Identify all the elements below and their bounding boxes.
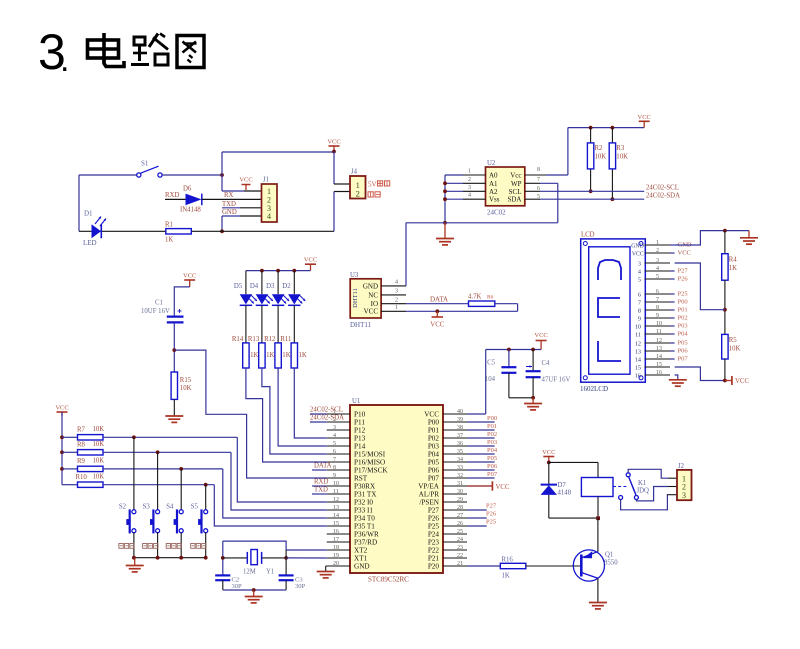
capacitor C5 104 — [485, 350, 517, 398]
svg-text:Vcc: Vcc — [510, 172, 521, 180]
wire DHT11 gnd up — [405, 223, 407, 286]
svg-text:GND: GND — [363, 282, 378, 290]
svg-text:47UF 16V: 47UF 16V — [542, 377, 571, 384]
svg-text:XT1: XT1 — [354, 555, 368, 563]
power VCC at VP/EA — [467, 481, 510, 491]
svg-text:C4: C4 — [542, 360, 551, 367]
svg-text:VCC: VCC — [430, 322, 444, 329]
svg-text:R12: R12 — [264, 336, 276, 343]
connector J2 — [677, 463, 692, 500]
svg-text:5: 5 — [333, 441, 336, 447]
svg-text:10UF 16V: 10UF 16V — [141, 308, 170, 315]
wire R16 to base — [526, 565, 582, 567]
wire DATA — [406, 303, 469, 305]
svg-text:VCC: VCC — [364, 308, 379, 316]
svg-text:4148: 4148 — [558, 490, 572, 497]
svg-text:P27: P27 — [486, 503, 497, 510]
svg-text:1K: 1K — [266, 352, 274, 359]
svg-text:DHT11: DHT11 — [352, 288, 359, 308]
svg-text:9: 9 — [638, 316, 641, 323]
svg-text:DHT11: DHT11 — [350, 321, 372, 329]
svg-text:R7: R7 — [77, 427, 86, 434]
svg-text:3: 3 — [656, 258, 659, 264]
button S2 — [119, 437, 136, 557]
svg-text:33: 33 — [457, 465, 463, 471]
wire SCL net — [525, 185, 679, 192]
svg-text:R4: R4 — [729, 257, 738, 264]
svg-text:SCL: SCL — [509, 188, 522, 196]
svg-text:DATA: DATA — [430, 295, 448, 303]
svg-text:P01: P01 — [678, 307, 688, 314]
svg-text:3: 3 — [682, 491, 686, 500]
diode D7 4148 — [541, 462, 572, 518]
resistor R9 10K — [62, 458, 104, 472]
svg-text:8: 8 — [656, 305, 659, 311]
wire P0 bus labels — [467, 415, 498, 478]
svg-text:R13: R13 — [248, 336, 260, 343]
wire vertical to J1 pin1 — [221, 152, 223, 191]
net GND stub J1 pin4 — [222, 209, 262, 216]
wire crystal gnd rail — [223, 588, 286, 592]
svg-text:D7: D7 — [558, 482, 567, 489]
svg-text:U1: U1 — [352, 398, 360, 405]
svg-text:32: 32 — [457, 473, 463, 479]
svg-text:P17/MSCK: P17/MSCK — [354, 467, 388, 475]
connector J4 power input — [350, 169, 366, 199]
svg-text:J4: J4 — [351, 169, 358, 176]
svg-text:P04: P04 — [678, 331, 689, 338]
wire lcd pin3 contrast — [675, 263, 725, 310]
svg-text:Q1: Q1 — [605, 552, 613, 559]
svg-text:4: 4 — [395, 280, 398, 286]
svg-text:P07: P07 — [428, 475, 440, 483]
led D4 — [250, 271, 273, 306]
svg-text:7: 7 — [537, 177, 540, 183]
svg-text:J2: J2 — [678, 463, 685, 470]
svg-text:3: 3 — [638, 261, 641, 268]
svg-text:P26: P26 — [428, 515, 440, 523]
svg-text:RXD: RXD — [314, 479, 328, 486]
svg-text:8: 8 — [333, 465, 336, 471]
svg-text:6: 6 — [638, 292, 641, 299]
svg-text:P27: P27 — [428, 507, 440, 515]
led D5 — [234, 271, 257, 306]
svg-text:/PSEN: /PSEN — [419, 499, 439, 507]
svg-text:P20: P20 — [428, 563, 440, 571]
svg-text:37: 37 — [457, 433, 463, 439]
svg-text:21: 21 — [457, 561, 463, 567]
svg-text:P14: P14 — [354, 443, 366, 451]
svg-text:J1: J1 — [263, 177, 269, 184]
svg-text:D5: D5 — [234, 283, 243, 290]
resistor R11 1K — [280, 305, 307, 368]
svg-text:4: 4 — [267, 212, 271, 221]
wire row R7 — [103, 435, 327, 502]
led D1 — [83, 210, 106, 248]
svg-text:R5: R5 — [729, 337, 738, 344]
node R4 top — [723, 229, 727, 233]
svg-text:P07: P07 — [678, 356, 689, 363]
title glyph dian — [88, 33, 125, 67]
resistor R8 10K — [62, 441, 104, 455]
svg-text:7: 7 — [656, 297, 659, 303]
svg-text:30P: 30P — [232, 583, 243, 590]
svg-text:NC: NC — [368, 291, 378, 299]
svg-text:15: 15 — [656, 362, 662, 368]
ground symbol lcd top — [740, 231, 758, 245]
svg-text:104: 104 — [485, 376, 496, 383]
svg-text:S3: S3 — [143, 504, 151, 511]
ground symbol R15 — [165, 399, 183, 422]
net 24C02-SCL at P10 — [310, 407, 343, 415]
lcd module 1602 — [580, 232, 645, 394]
svg-text:VCC: VCC — [55, 405, 68, 412]
connector J1 — [262, 177, 278, 223]
svg-text:10: 10 — [333, 481, 339, 487]
svg-text:12M: 12M — [243, 569, 256, 576]
node U2 gnd junctions — [443, 181, 447, 224]
svg-text:4: 4 — [638, 269, 641, 276]
svg-text:11: 11 — [656, 329, 662, 335]
wire MCU VCC pin riser — [443, 350, 486, 415]
svg-text:2: 2 — [656, 248, 659, 254]
svg-text:VCC: VCC — [304, 257, 317, 264]
svg-text:VCC: VCC — [542, 449, 555, 456]
capacitor C3 30P — [279, 575, 306, 590]
svg-text:14: 14 — [635, 357, 641, 364]
wire crystal right vertical — [285, 550, 287, 575]
svg-text:A2: A2 — [489, 188, 498, 196]
svg-text:P36/WR: P36/WR — [354, 531, 379, 539]
svg-text:6: 6 — [333, 449, 336, 455]
svg-text:P22: P22 — [428, 547, 440, 555]
svg-text:P13: P13 — [354, 435, 366, 443]
resistor R5 10K — [722, 334, 741, 380]
svg-text:39: 39 — [457, 417, 463, 423]
wire lcd pin16 gnd — [675, 375, 678, 380]
net DATA label — [430, 295, 448, 303]
svg-text:P26: P26 — [678, 276, 689, 283]
svg-text:P04: P04 — [428, 451, 440, 459]
svg-text:Y1: Y1 — [266, 569, 274, 576]
wire J4 pin2 — [334, 192, 350, 232]
svg-text:P06: P06 — [678, 348, 689, 355]
svg-text:12: 12 — [333, 497, 339, 503]
wire crystal top link — [223, 541, 327, 550]
relay K1 coil — [581, 462, 649, 520]
resistor R16 1K — [500, 557, 526, 580]
ground symbol crystal — [245, 590, 263, 603]
power VCC down DHT11 — [430, 311, 444, 328]
svg-text:DATA: DATA — [314, 463, 332, 470]
svg-text:14: 14 — [656, 354, 662, 360]
svg-text:P11: P11 — [354, 419, 365, 427]
svg-text:23: 23 — [457, 545, 463, 551]
svg-text:P06: P06 — [428, 467, 440, 475]
net P27 P26 P25 stubs — [467, 503, 497, 527]
node bottom junction — [220, 229, 224, 233]
svg-text:P16/MISO: P16/MISO — [354, 459, 385, 467]
wire row R8 — [103, 450, 327, 510]
svg-text:22: 22 — [457, 553, 463, 559]
wire button gnd rail — [132, 556, 208, 560]
wire DHT11 VCC — [406, 309, 518, 313]
wire S1 to junction — [162, 174, 222, 176]
svg-text:LCD: LCD — [581, 232, 595, 239]
svg-text:1K: 1K — [250, 352, 258, 359]
svg-text:R15: R15 — [180, 377, 192, 384]
svg-text:P15/MOSI: P15/MOSI — [354, 451, 386, 459]
svg-text:D4: D4 — [250, 283, 259, 290]
svg-text:P01: P01 — [487, 423, 497, 430]
svg-text:24C02-SDA: 24C02-SDA — [310, 415, 344, 422]
svg-text:26: 26 — [457, 521, 463, 527]
button S5 — [191, 485, 208, 558]
svg-text:D2: D2 — [282, 283, 291, 290]
svg-text:P37/RD: P37/RD — [354, 539, 377, 547]
wire bottom rail — [79, 230, 334, 232]
svg-text:P10: P10 — [354, 411, 366, 419]
wire VCC rail top — [568, 127, 644, 129]
power VCC top — [327, 139, 340, 154]
svg-text:3: 3 — [333, 425, 336, 431]
svg-text:27: 27 — [457, 513, 463, 519]
ic U2 24C02 — [486, 160, 525, 217]
wire relay NC to J2 pin3 — [621, 495, 677, 510]
power VCC relay — [542, 449, 555, 464]
svg-text:A1: A1 — [489, 180, 498, 188]
wire D7 bottom link — [549, 517, 598, 519]
wire top rail to VCC — [222, 151, 334, 153]
svg-text:VCC: VCC — [638, 114, 651, 121]
label button functions — [119, 544, 206, 549]
svg-text:29: 29 — [457, 497, 463, 503]
svg-text:K1: K1 — [638, 480, 646, 487]
svg-text:18: 18 — [333, 545, 339, 551]
resistor R3 — [609, 128, 628, 202]
button S3 — [143, 452, 160, 557]
svg-text:24C02: 24C02 — [487, 209, 506, 217]
svg-text:3: 3 — [395, 289, 398, 295]
svg-text:SDA: SDA — [507, 196, 521, 204]
svg-text:R6: R6 — [487, 295, 494, 301]
svg-text:10: 10 — [635, 324, 641, 331]
svg-text:P27: P27 — [678, 268, 689, 275]
net RXD at P30 — [312, 479, 328, 487]
ic U1 STC89C52RC — [350, 398, 443, 584]
svg-text:4: 4 — [656, 266, 659, 272]
svg-text:30P: 30P — [295, 583, 306, 590]
svg-text:1: 1 — [468, 169, 471, 175]
svg-text:VP/EA: VP/EA — [418, 483, 440, 491]
svg-text:P00: P00 — [428, 419, 440, 427]
wire lcd pin stubs — [645, 240, 671, 376]
power VCC lcd — [725, 376, 750, 385]
title text 3. — [38, 24, 69, 80]
svg-text:RXD: RXD — [165, 192, 179, 199]
svg-text:12: 12 — [656, 338, 662, 344]
svg-text:5: 5 — [656, 274, 659, 280]
wire diode to J1 pin2 — [202, 192, 262, 199]
svg-text:4: 4 — [333, 433, 336, 439]
svg-text:24C02-SCL: 24C02-SCL — [310, 407, 343, 414]
svg-text:7: 7 — [333, 457, 336, 463]
power VCC led rail — [304, 257, 317, 271]
svg-text:10: 10 — [656, 321, 662, 327]
resistor R7 10K — [62, 426, 104, 440]
svg-text:9: 9 — [333, 473, 336, 479]
wire XT1 — [286, 557, 327, 559]
resistor R15 10K — [171, 372, 192, 399]
svg-text:13: 13 — [635, 349, 641, 356]
svg-text:TXD: TXD — [222, 201, 236, 208]
net labels lcd pins — [670, 242, 692, 363]
wire R6 to VCC line — [495, 304, 518, 312]
svg-text:19: 19 — [333, 553, 339, 559]
svg-text:P03: P03 — [428, 443, 440, 451]
wire row R10 — [103, 483, 327, 526]
svg-text:16: 16 — [635, 373, 641, 380]
svg-text:VCC: VCC — [183, 273, 196, 280]
wire gnd horizontal — [406, 222, 558, 224]
svg-text:9: 9 — [656, 313, 659, 319]
resistor R10 10K — [62, 474, 104, 488]
svg-text:VCC: VCC — [327, 139, 340, 146]
svg-text:R3: R3 — [616, 145, 625, 152]
resistor R1 — [165, 222, 191, 244]
svg-text:P23: P23 — [428, 539, 440, 547]
wire led R14 to P16 — [246, 368, 327, 462]
net TXD at P31 — [312, 487, 328, 495]
wire relay common to J2 pin2 — [636, 487, 677, 501]
svg-text:1K: 1K — [729, 265, 737, 272]
capacitor C4 47UF — [526, 350, 571, 398]
svg-text:11: 11 — [635, 332, 641, 339]
node rail R2 R3 — [589, 126, 615, 130]
svg-text:12: 12 — [635, 341, 641, 348]
resistor R6 4.7K — [468, 294, 495, 307]
svg-text:24: 24 — [457, 537, 463, 543]
wire led R13 to P15 — [262, 368, 327, 454]
svg-text:4: 4 — [468, 193, 471, 199]
svg-text:4.7K: 4.7K — [468, 294, 481, 301]
svg-text:P24: P24 — [428, 531, 440, 539]
svg-text:P00: P00 — [487, 415, 497, 422]
wire DHT11 pins — [381, 280, 406, 312]
svg-text:P26: P26 — [486, 511, 497, 518]
svg-text:GND: GND — [354, 563, 370, 571]
svg-text:P06: P06 — [487, 463, 498, 470]
svg-text:2: 2 — [356, 189, 360, 199]
svg-text:VCC: VCC — [496, 484, 510, 491]
label 5V power — [368, 181, 390, 189]
svg-text:31: 31 — [457, 481, 463, 487]
resistor R13 1K — [248, 305, 275, 368]
svg-text:P05: P05 — [487, 455, 497, 462]
wire GND down to bottom — [221, 216, 223, 231]
wire lcd pin1 gnd — [675, 231, 749, 245]
svg-text:11: 11 — [333, 489, 339, 495]
svg-text:P02: P02 — [678, 315, 688, 322]
svg-text:D3: D3 — [266, 283, 275, 290]
node junction S1/VCC — [220, 173, 224, 177]
wire J1 pin1 — [222, 190, 262, 192]
svg-text:S1: S1 — [141, 160, 149, 168]
svg-text:D6: D6 — [183, 186, 192, 193]
svg-text:2: 2 — [468, 177, 471, 183]
svg-text:Vss: Vss — [489, 196, 500, 204]
svg-text:2: 2 — [395, 297, 398, 303]
svg-text:P04: P04 — [487, 447, 498, 454]
svg-text:P02: P02 — [487, 431, 497, 438]
svg-text:17: 17 — [333, 537, 339, 543]
ground symbol buttons — [126, 558, 144, 572]
svg-text:34: 34 — [457, 457, 463, 463]
svg-text:7: 7 — [638, 300, 641, 307]
svg-text:S4: S4 — [166, 504, 174, 511]
wire C1 to R15 — [172, 322, 176, 372]
svg-text:P31 TX: P31 TX — [354, 491, 377, 499]
svg-text:RST: RST — [354, 475, 368, 483]
net DATA at P17 — [312, 463, 332, 471]
wire RXD to diode — [165, 198, 186, 200]
svg-text:24C02-SCL: 24C02-SCL — [646, 185, 679, 192]
svg-text:P35 T1: P35 T1 — [354, 523, 375, 531]
svg-text:P30RX: P30RX — [354, 483, 376, 491]
svg-text:S2: S2 — [119, 504, 127, 511]
wire S1 left — [79, 174, 137, 176]
svg-text:13: 13 — [333, 505, 339, 511]
svg-text:LED: LED — [83, 239, 97, 247]
svg-text:24C02-SDA: 24C02-SDA — [646, 193, 680, 200]
svg-text:.: . — [60, 41, 69, 79]
svg-text:10K: 10K — [616, 154, 628, 161]
svg-text:GND: GND — [631, 243, 644, 249]
svg-text:JDQ: JDQ — [637, 487, 650, 494]
svg-text:U2: U2 — [487, 160, 496, 167]
svg-text:STC89C52RC: STC89C52RC — [368, 576, 409, 584]
svg-text:VCC: VCC — [239, 177, 252, 184]
wire led R11 to P13 — [294, 368, 326, 438]
net TXD stub J1 pin3 — [222, 201, 262, 208]
svg-text:VCC: VCC — [534, 332, 547, 339]
wire reset junction to RST — [174, 350, 326, 478]
title glyph tu — [177, 36, 204, 68]
svg-text:10K: 10K — [93, 458, 105, 465]
wire left branch vertical — [78, 175, 80, 231]
power VCC mid — [534, 332, 547, 350]
svg-text:R8: R8 — [77, 442, 86, 449]
svg-text:R10: R10 — [76, 474, 88, 481]
svg-text:P05: P05 — [678, 340, 688, 347]
svg-text:P25: P25 — [428, 523, 440, 531]
svg-text:P02: P02 — [428, 435, 440, 443]
ground symbol Q1 — [589, 603, 607, 609]
sensor U3 DHT11 — [350, 272, 381, 329]
wire crystal left vertical — [221, 541, 225, 575]
wire relay NO to J2 pin1 — [628, 469, 677, 478]
capacitor C2 30P — [215, 575, 242, 590]
svg-text:R9: R9 — [77, 458, 86, 465]
svg-text:P03: P03 — [678, 323, 688, 330]
svg-text:1K: 1K — [282, 352, 290, 359]
diode D6 IN4148 — [180, 186, 202, 214]
wire MCU gnd pin — [326, 566, 350, 572]
svg-text:16: 16 — [656, 370, 662, 376]
svg-text:8: 8 — [638, 308, 641, 315]
svg-text:36: 36 — [457, 441, 463, 447]
svg-text:VCC: VCC — [632, 251, 644, 257]
